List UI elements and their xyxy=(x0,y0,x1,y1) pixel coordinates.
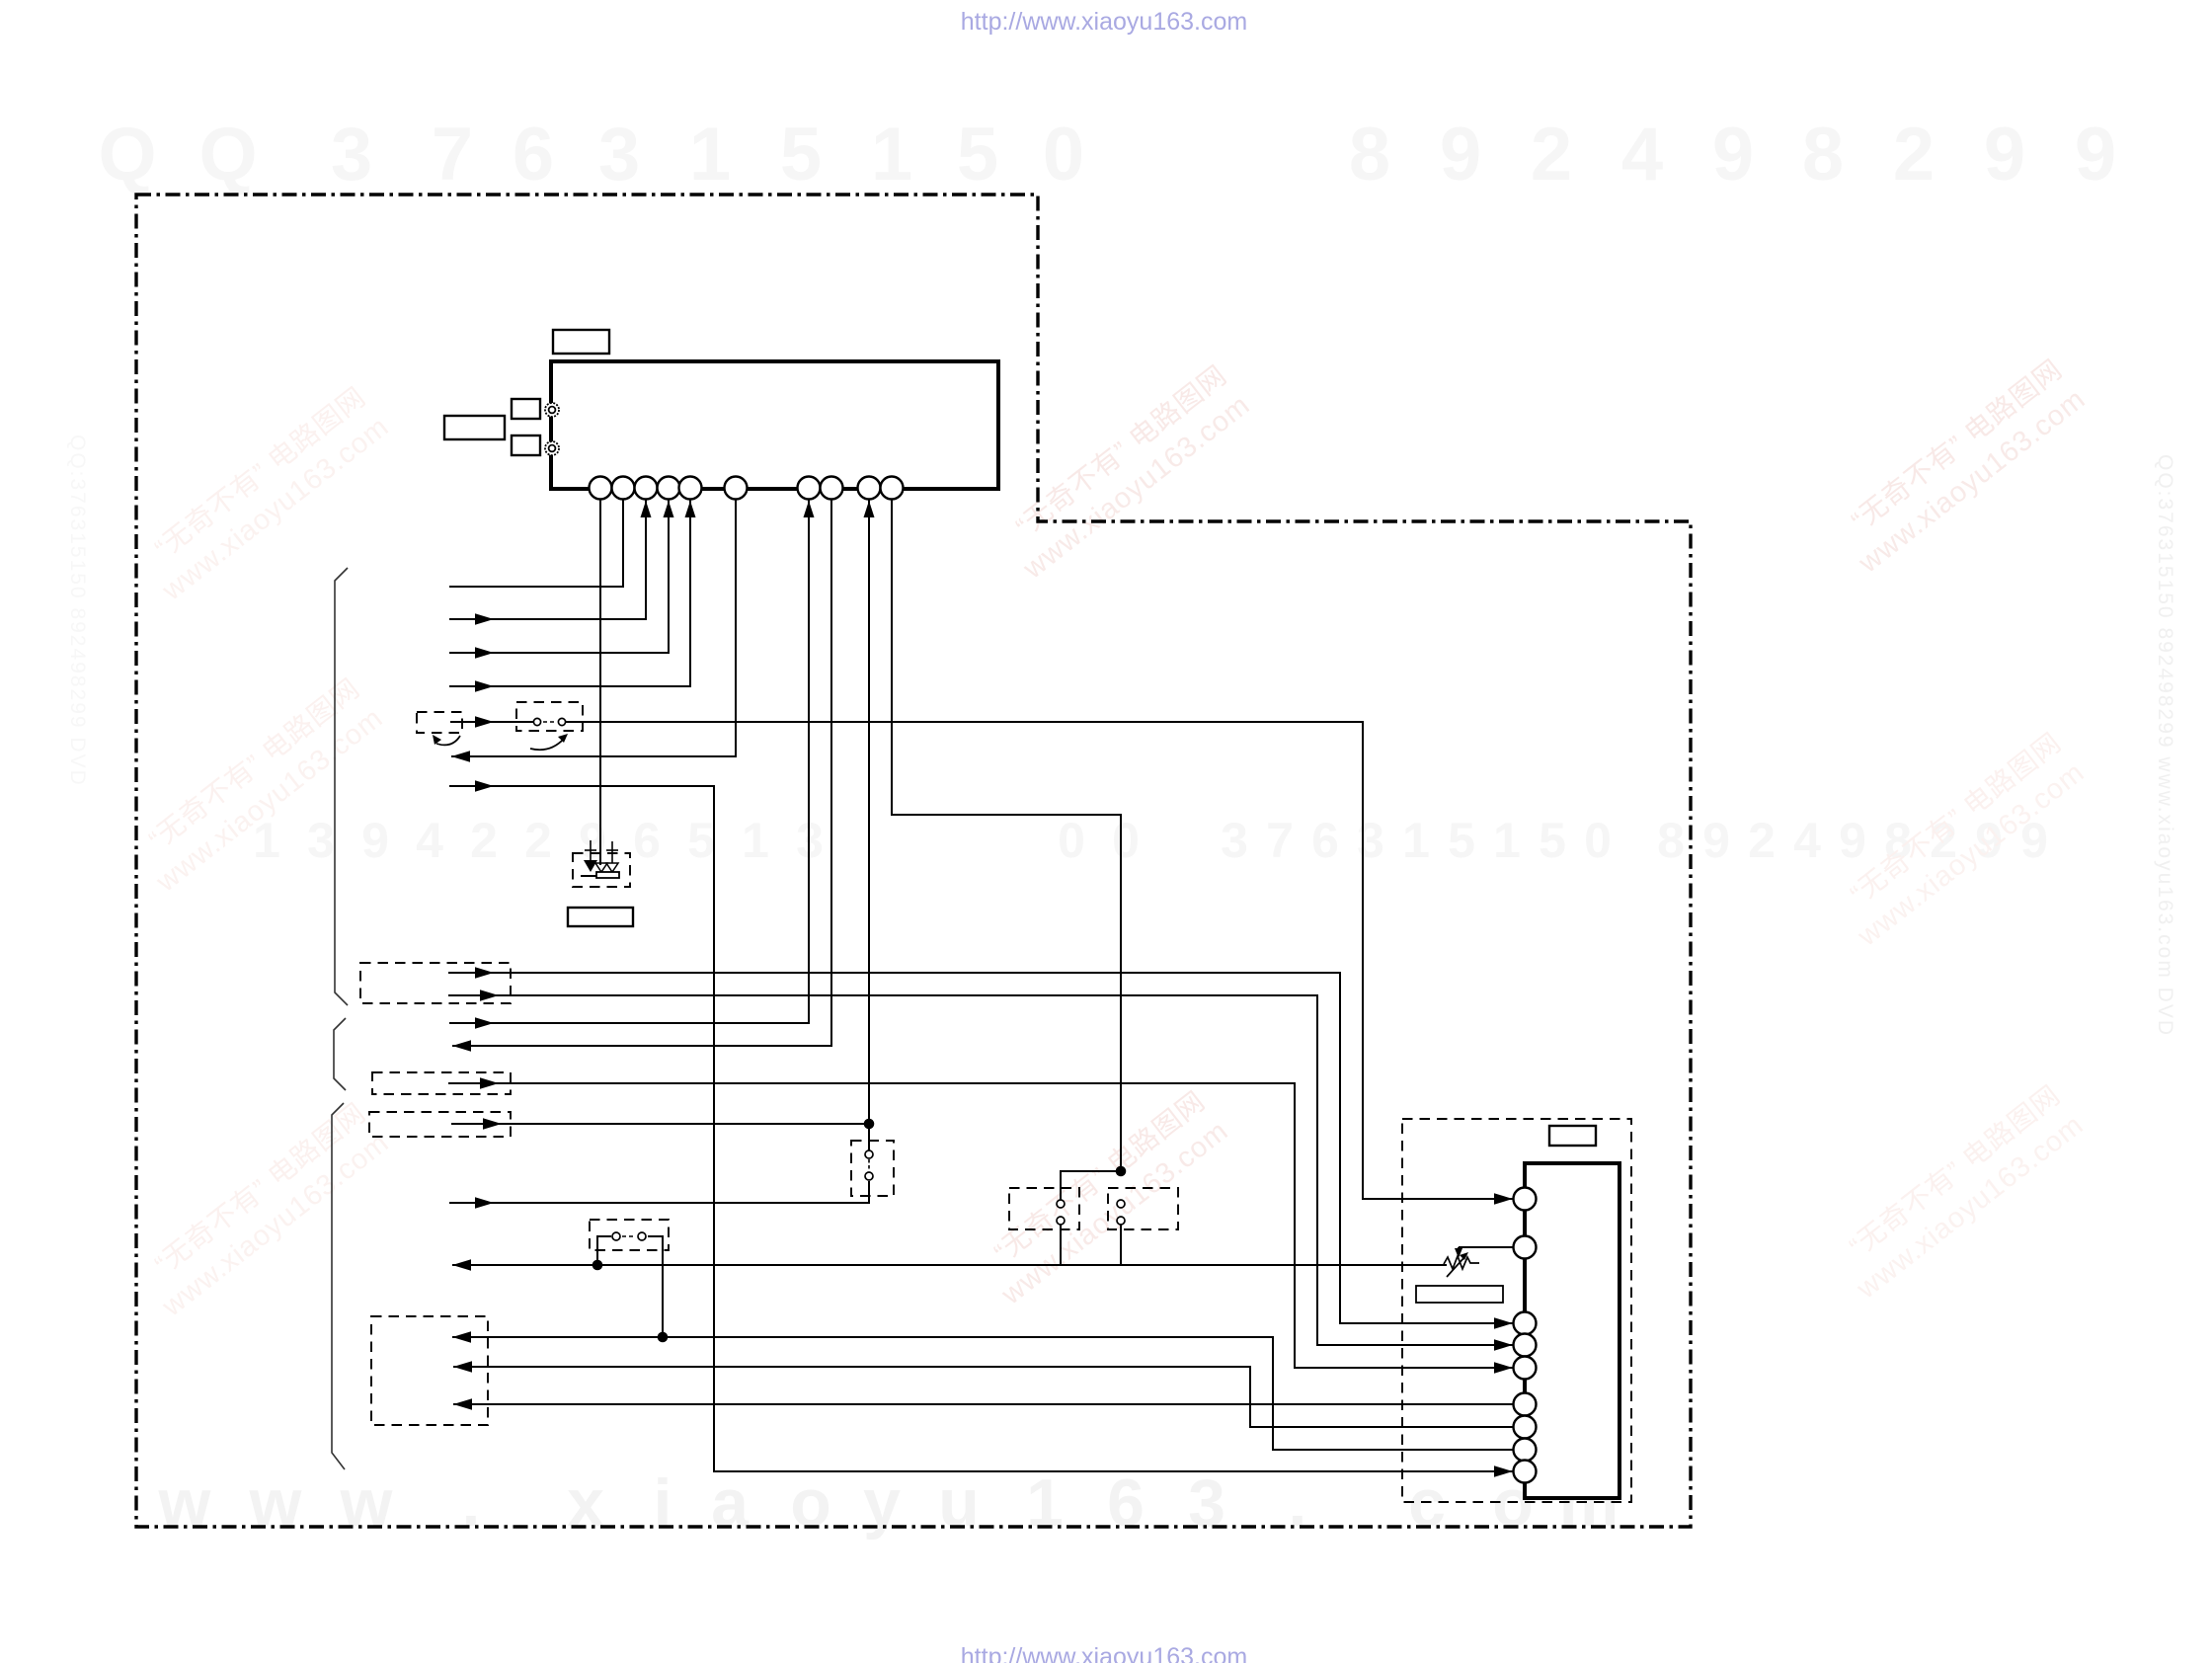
wire S1 output to bracket xyxy=(449,1181,869,1203)
node junction pin10 switch column xyxy=(1116,1166,1127,1177)
wire S2 right contact down to return line xyxy=(648,1236,663,1337)
svg-text:2: 2 xyxy=(524,813,552,868)
wire pin9 vertical to switch S1 xyxy=(868,499,870,1150)
wire S2 left contact down to audio line xyxy=(597,1236,611,1265)
wire pin3 run with input arrow xyxy=(449,499,646,619)
svg-text:2: 2 xyxy=(1748,813,1776,868)
svg-text:5: 5 xyxy=(1448,813,1475,868)
svg-text:2: 2 xyxy=(1531,113,1572,197)
svg-text:5: 5 xyxy=(687,813,715,868)
svg-text:7: 7 xyxy=(1266,813,1294,868)
watermark: middle faint digit row xyxy=(253,813,2048,868)
pin 6 of U2 xyxy=(1514,1393,1537,1416)
svg-text:6: 6 xyxy=(633,813,661,868)
svg-text:http://www.xiaoyu163.com: http://www.xiaoyu163.com xyxy=(961,8,1247,36)
wire CN3 output A to U2 pin3 xyxy=(448,973,1514,1323)
pin 1 of U1 xyxy=(590,477,612,500)
svg-text:i: i xyxy=(654,1465,672,1541)
resistor block R-B left of U1 xyxy=(512,436,540,455)
label box left of U1 xyxy=(444,416,505,439)
svg-text:5: 5 xyxy=(1539,813,1566,868)
label box under photodetector xyxy=(568,908,633,926)
pin 5 of U1 xyxy=(679,477,702,500)
switch S2 dashed box xyxy=(590,1220,669,1250)
wire CN3 output B to U2 pin4 xyxy=(448,995,1514,1345)
svg-text:0: 0 xyxy=(1058,813,1085,868)
wire junction to switch S3 xyxy=(1061,1171,1121,1200)
svg-text:0: 0 xyxy=(1112,813,1140,868)
pin 4 of U2 xyxy=(1514,1334,1537,1357)
svg-text:7: 7 xyxy=(432,113,473,197)
wire pin8 output run with left arrow xyxy=(452,499,831,1046)
connector CN-A dashed box on switched line xyxy=(417,712,462,733)
svg-text:3: 3 xyxy=(1357,813,1384,868)
svg-text:4: 4 xyxy=(1793,813,1821,868)
svg-text:1: 1 xyxy=(1402,813,1430,868)
connector CN6 dashed box xyxy=(371,1316,488,1425)
connector CN3 dashed box xyxy=(360,963,511,1003)
svg-text:5: 5 xyxy=(780,113,822,197)
pin 1 of U2 xyxy=(1514,1188,1537,1211)
svg-text:w: w xyxy=(158,1465,212,1541)
svg-text:4: 4 xyxy=(1621,113,1663,197)
svg-text:0: 0 xyxy=(1584,813,1612,868)
svg-text:1: 1 xyxy=(689,113,731,197)
label box U2 xyxy=(1549,1126,1596,1146)
photodetector base bar xyxy=(596,872,619,878)
pin 10 of U1 xyxy=(881,477,904,500)
svg-text:2: 2 xyxy=(470,813,498,868)
svg-text:a: a xyxy=(711,1465,750,1541)
watermark: pink tile right-top xyxy=(1829,354,2092,580)
pin 4 of U1 xyxy=(658,477,680,500)
svg-text:c: c xyxy=(1408,1465,1446,1541)
pin 7 of U1 xyxy=(798,477,821,500)
svg-text:4: 4 xyxy=(416,813,443,868)
wire switched line to U2 pin1 xyxy=(450,721,533,723)
module U2 dashed enclosure xyxy=(1402,1119,1631,1502)
svg-text:.: . xyxy=(1289,1465,1307,1541)
svg-text:0: 0 xyxy=(1043,113,1084,197)
rotation arrow under CN-A xyxy=(436,736,460,745)
diode D1a filled arrow xyxy=(590,840,592,860)
wire audio line to potentiometer and U2 pin2 xyxy=(452,1264,1447,1266)
watermark: pink tile middle-bottom xyxy=(972,1085,1234,1311)
svg-text:http://www.xiaoyu163.com: http://www.xiaoyu163.com xyxy=(961,1643,1247,1663)
svg-text:9: 9 xyxy=(1440,113,1481,197)
diode D1b open triangle xyxy=(595,863,607,872)
wire pin6 output run with left arrow xyxy=(451,499,736,756)
watermark: bottom faint www.xiaoyu163.com row xyxy=(158,1465,1619,1541)
wire pin10 vertical and jog to switch column xyxy=(892,499,1121,1171)
diode D1c open triangle with tick xyxy=(611,841,613,863)
harness bracket 3 xyxy=(332,1103,345,1469)
svg-text:x: x xyxy=(567,1465,604,1541)
svg-text:8: 8 xyxy=(1349,113,1390,197)
pin 7 of U2 xyxy=(1514,1416,1537,1439)
pin 2 of U2 xyxy=(1514,1236,1537,1259)
wire S4 output down to audio line xyxy=(1120,1225,1122,1265)
wire return line to U2 pin7 xyxy=(453,1367,1514,1427)
svg-text:w: w xyxy=(340,1465,394,1541)
pin 3 of U1 xyxy=(635,477,658,500)
watermark: top faint digit row QQ 376315150 892498299 xyxy=(98,113,2116,197)
svg-text:3: 3 xyxy=(598,113,640,197)
wire pin4 run with input arrow xyxy=(449,499,669,653)
node junction S2/audio line xyxy=(592,1260,603,1271)
watermark: pink tile left-lower xyxy=(126,673,389,899)
wire CN5 to junction on pin9 line xyxy=(451,1123,869,1125)
svg-text:9: 9 xyxy=(1984,113,2025,197)
op-amp U1 main IC block xyxy=(551,361,998,489)
wire return line to U2 pin8 xyxy=(452,1337,1514,1450)
svg-text:8: 8 xyxy=(1802,113,1844,197)
switch S4 dashed box xyxy=(1108,1188,1178,1229)
svg-text:3: 3 xyxy=(1188,1465,1225,1541)
pin 3 of U2 xyxy=(1514,1312,1537,1335)
resistor block R-A left of U1 xyxy=(512,399,540,419)
pin 5 of U2 xyxy=(1514,1357,1537,1380)
svg-text:1: 1 xyxy=(742,813,769,868)
wire pin1 vertical to photodetector xyxy=(599,499,601,865)
watermark: pink tile right-bottom xyxy=(1827,1079,2090,1306)
svg-text:1: 1 xyxy=(1026,1465,1064,1541)
photodetector D1 dashed box xyxy=(573,853,630,887)
rotation arrow under SW-A xyxy=(530,739,564,750)
watermark: pink tile middle-top xyxy=(993,359,1256,586)
pin 9 of U2 xyxy=(1514,1461,1537,1483)
svg-text:6: 6 xyxy=(1107,1465,1145,1541)
switch SW-A dashed box with contacts xyxy=(516,702,583,731)
chassis ground dash-dot border xyxy=(136,195,1691,1527)
svg-text:3: 3 xyxy=(307,813,335,868)
svg-text:u: u xyxy=(938,1465,980,1541)
svg-text:1: 1 xyxy=(1493,813,1521,868)
svg-text:y: y xyxy=(863,1465,901,1541)
pin 6 of U1 xyxy=(725,477,748,500)
node junction pin9/CN5 xyxy=(864,1119,875,1130)
switch S1 dashed box xyxy=(851,1141,894,1196)
pin 2 of U1 xyxy=(612,477,635,500)
svg-text:3: 3 xyxy=(1221,813,1248,868)
node junction S2/return line xyxy=(658,1332,669,1343)
wire S3 output down to audio line xyxy=(1060,1225,1062,1265)
svg-text:9: 9 xyxy=(2075,113,2116,197)
harness bracket 1 xyxy=(335,568,348,1005)
pin 8 of U1 xyxy=(821,477,843,500)
svg-text:QQ:376315150 892498299 DVD: QQ:376315150 892498299 DVD xyxy=(66,435,89,787)
watermark: pink tile left-top xyxy=(132,381,395,607)
wire input run to U2 pin9 xyxy=(449,786,1514,1471)
wire CN4 output to U2 pin5 xyxy=(448,1083,1514,1368)
switch S3 dashed box xyxy=(1009,1188,1079,1229)
svg-text:QQ:376315150 892498299 www.: QQ:376315150 892498299 www.xiaoyu163.com… xyxy=(2154,454,2176,1037)
wire pin5 run with input arrow xyxy=(449,499,690,686)
jack J2 on U1 left edge xyxy=(545,441,559,455)
jack J1 on U1 left edge xyxy=(545,403,559,417)
svg-text:9: 9 xyxy=(1712,113,1754,197)
potentiometer VR1 xyxy=(1459,1246,1513,1248)
harness bracket 2 xyxy=(334,1018,346,1090)
svg-text:6: 6 xyxy=(1311,813,1339,868)
svg-text:w: w xyxy=(249,1465,303,1541)
connector CN4 dashed box xyxy=(372,1072,511,1094)
svg-text:9: 9 xyxy=(361,813,389,868)
pin 8 of U2 xyxy=(1514,1439,1537,1462)
label box U1 xyxy=(553,330,609,354)
pin 9 of U1 xyxy=(858,477,881,500)
svg-text:9: 9 xyxy=(1839,813,1866,868)
label box inside U2 enclosure xyxy=(1416,1286,1503,1303)
svg-text:6: 6 xyxy=(513,113,554,197)
watermark: pink tile left-bottom xyxy=(132,1097,395,1323)
wire line to U2 pin6 xyxy=(453,1403,1514,1405)
svg-text:9: 9 xyxy=(579,813,606,868)
svg-text:2: 2 xyxy=(1893,113,1935,197)
svg-text:1: 1 xyxy=(871,113,912,197)
svg-text:8: 8 xyxy=(1657,813,1685,868)
connector CN5 dashed box xyxy=(369,1112,511,1137)
svg-text:5: 5 xyxy=(957,113,998,197)
wire pin2 vertical and horizontal run xyxy=(449,499,623,587)
wire pin7 run with input arrow xyxy=(449,499,809,1023)
svg-text:3: 3 xyxy=(331,113,372,197)
svg-text:Q: Q xyxy=(198,113,257,197)
svg-text:Q: Q xyxy=(98,113,156,197)
IC U2 block xyxy=(1525,1163,1619,1498)
svg-text:9: 9 xyxy=(1702,813,1730,868)
svg-text:.: . xyxy=(462,1465,481,1541)
watermark: pink tile right-middle xyxy=(1828,727,2091,953)
svg-text:o: o xyxy=(790,1465,831,1541)
